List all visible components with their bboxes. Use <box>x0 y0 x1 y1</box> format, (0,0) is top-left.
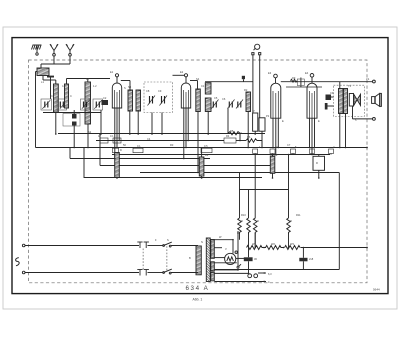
svg-text:4.7: 4.7 <box>62 84 66 88</box>
svg-text:C: C <box>70 94 72 98</box>
svg-text:C5: C5 <box>214 96 218 100</box>
svg-text:S2: S2 <box>88 130 92 134</box>
svg-text:C6: C6 <box>222 97 226 101</box>
svg-text:D2: D2 <box>205 153 209 157</box>
svg-text:C2: C2 <box>103 96 107 100</box>
svg-text:R4: R4 <box>226 134 230 138</box>
svg-text:E: E <box>318 119 320 123</box>
svg-text:E4: E4 <box>305 71 309 75</box>
svg-text:2x8: 2x8 <box>309 257 314 261</box>
svg-text:1.2: 1.2 <box>93 84 97 88</box>
svg-text:S: S <box>124 86 126 90</box>
svg-text:0.1: 0.1 <box>110 134 114 138</box>
svg-text:C4: C4 <box>147 137 151 141</box>
svg-text:5644: 5644 <box>373 287 380 291</box>
svg-text:P2: P2 <box>266 114 270 118</box>
svg-text:N: N <box>201 240 203 244</box>
svg-text:C: C <box>51 94 53 98</box>
svg-text:E1: E1 <box>110 70 114 74</box>
svg-text:C9: C9 <box>330 91 334 95</box>
svg-text:D3: D3 <box>274 153 278 157</box>
svg-text:P: P <box>253 109 255 113</box>
svg-text:R3: R3 <box>170 143 174 147</box>
svg-text:S3: S3 <box>128 85 132 89</box>
svg-text:0.5: 0.5 <box>204 144 208 148</box>
svg-text:C1: C1 <box>201 84 205 88</box>
svg-text:R2: R2 <box>244 88 248 92</box>
svg-text:C7: C7 <box>287 143 291 147</box>
svg-text:R: R <box>290 219 292 223</box>
svg-text:D: D <box>120 148 122 152</box>
svg-text:R: R <box>257 219 259 223</box>
svg-text:B: B <box>189 256 191 260</box>
svg-text:W2: W2 <box>271 242 275 246</box>
svg-text:LS: LS <box>366 77 369 81</box>
svg-text:W3: W3 <box>290 242 294 246</box>
svg-text:R6: R6 <box>247 135 251 139</box>
svg-text:R9: R9 <box>292 76 296 80</box>
svg-text:R5: R5 <box>230 129 234 133</box>
svg-text:V: V <box>225 247 227 251</box>
svg-text:R: R <box>316 161 318 165</box>
svg-text:E2: E2 <box>180 70 184 74</box>
svg-text:C9: C9 <box>158 89 162 93</box>
svg-text:W1: W1 <box>252 242 256 246</box>
svg-text:S: S <box>167 238 169 242</box>
svg-text:E: E <box>282 119 284 123</box>
svg-text:0.1: 0.1 <box>137 144 141 148</box>
svg-text:634 A: 634 A <box>186 285 210 292</box>
svg-text:R11: R11 <box>296 213 301 217</box>
svg-text:Abb. 1: Abb. 1 <box>193 298 203 302</box>
svg-text:R10: R10 <box>241 213 246 217</box>
svg-text:C8: C8 <box>146 89 150 93</box>
svg-text:E3: E3 <box>268 71 272 75</box>
svg-text:6,3: 6,3 <box>268 272 272 276</box>
svg-text:R: R <box>241 219 243 223</box>
svg-text:S4: S4 <box>196 77 200 81</box>
